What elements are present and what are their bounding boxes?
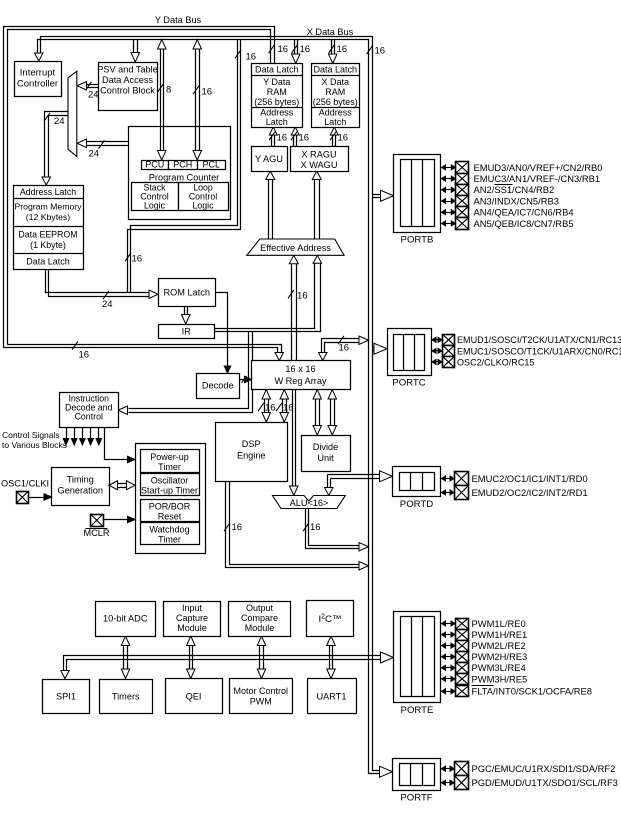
- svg-text:Decode: Decode: [202, 381, 234, 391]
- svg-text:Address: Address: [319, 108, 353, 118]
- svg-text:Address: Address: [260, 108, 294, 118]
- svg-text:16: 16: [232, 522, 243, 533]
- svg-text:PGD/EMUD/U1TX/SDO1/SCL/RF3: PGD/EMUD/U1TX/SDO1/SCL/RF3: [472, 777, 618, 788]
- svg-text:Latch: Latch: [324, 117, 346, 127]
- svg-text:24: 24: [102, 299, 113, 310]
- svg-text:PCU: PCU: [145, 160, 164, 170]
- svg-text:Control Signals: Control Signals: [2, 430, 60, 440]
- svg-text:Divide: Divide: [313, 442, 339, 452]
- svg-text:PSV and Table: PSV and Table: [97, 65, 158, 75]
- svg-text:16: 16: [310, 522, 321, 533]
- svg-text:Latch: Latch: [266, 117, 288, 127]
- svg-text:Controller: Controller: [17, 79, 58, 90]
- svg-text:EMUD3/AN0/VREF+/CN2/RB0: EMUD3/AN0/VREF+/CN2/RB0: [474, 162, 603, 173]
- svg-text:EMUC1/SOSCO/T1CK/U1ARX/CN0/RC1: EMUC1/SOSCO/T1CK/U1ARX/CN0/RC14: [457, 346, 621, 356]
- svg-text:MCLR: MCLR: [83, 528, 109, 538]
- svg-text:Timers: Timers: [112, 692, 140, 702]
- svg-text:AN2/SS1/CN4/RB2: AN2/SS1/CN4/RB2: [474, 184, 555, 195]
- svg-text:Y Data: Y Data: [263, 77, 290, 87]
- svg-text:OSC1/CLKI: OSC1/CLKI: [1, 479, 49, 489]
- svg-text:PWM3L/RE4: PWM3L/RE4: [472, 662, 526, 673]
- svg-text:16: 16: [299, 133, 310, 144]
- svg-text:X WAGU: X WAGU: [301, 160, 338, 170]
- svg-text:OSC2/CLKO/RC15: OSC2/CLKO/RC15: [457, 357, 534, 367]
- svg-text:16: 16: [300, 44, 311, 55]
- svg-text:PWM: PWM: [250, 697, 272, 707]
- svg-text:IR: IR: [182, 326, 192, 336]
- svg-text:ALU<16>: ALU<16>: [290, 498, 329, 508]
- svg-text:(12 Kbytes): (12 Kbytes): [26, 212, 71, 222]
- svg-text:Start-up Timer: Start-up Timer: [141, 486, 198, 496]
- svg-text:Logic: Logic: [144, 201, 166, 211]
- svg-text:Logic: Logic: [192, 201, 214, 211]
- svg-text:POR/BOR: POR/BOR: [149, 502, 191, 512]
- svg-text:QEI: QEI: [186, 692, 202, 702]
- svg-text:EMUD2/OC2/IC2/INT2/RD1: EMUD2/OC2/IC2/INT2/RD1: [472, 487, 588, 498]
- svg-text:PWM2L/RE2: PWM2L/RE2: [472, 640, 526, 651]
- svg-text:Control Block: Control Block: [100, 86, 155, 96]
- svg-text:Effective Address: Effective Address: [260, 243, 331, 253]
- svg-text:EMUC2/OC1/IC1/INT1/RD0: EMUC2/OC1/IC1/INT1/RD0: [472, 473, 588, 484]
- svg-text:PWM3H/RE5: PWM3H/RE5: [472, 673, 528, 684]
- svg-text:Power-up: Power-up: [150, 452, 189, 462]
- svg-text:RAM: RAM: [325, 87, 345, 97]
- svg-text:PWM2H/RE3: PWM2H/RE3: [472, 651, 528, 662]
- svg-text:Data Access: Data Access: [102, 75, 153, 85]
- svg-text:Timing: Timing: [67, 475, 94, 485]
- svg-text:Y AGU: Y AGU: [255, 154, 283, 164]
- svg-text:PCL: PCL: [202, 160, 220, 170]
- svg-text:16: 16: [246, 52, 257, 63]
- svg-text:16: 16: [297, 291, 308, 302]
- svg-text:to Various Blocks: to Various Blocks: [2, 440, 67, 450]
- svg-text:Module: Module: [245, 623, 275, 633]
- svg-text:ROM Latch: ROM Latch: [164, 287, 210, 297]
- svg-text:Motor Control: Motor Control: [233, 686, 288, 696]
- svg-text:PORTF: PORTF: [400, 793, 432, 804]
- svg-text:Output: Output: [246, 603, 274, 613]
- svg-text:Timer: Timer: [158, 462, 181, 472]
- svg-text:16: 16: [278, 44, 289, 55]
- svg-text:Unit: Unit: [317, 453, 334, 463]
- svg-text:(256 bytes): (256 bytes): [254, 97, 299, 107]
- svg-text:PORTE: PORTE: [401, 705, 434, 716]
- svg-text:PORTD: PORTD: [400, 499, 433, 510]
- svg-text:16: 16: [79, 350, 90, 361]
- svg-text:Capture: Capture: [176, 613, 208, 623]
- svg-text:16: 16: [338, 133, 349, 144]
- svg-text:PCH: PCH: [173, 160, 192, 170]
- svg-text:24: 24: [89, 149, 100, 160]
- svg-text:EMUC3/AN1/VREF-/CN3/RB1: EMUC3/AN1/VREF-/CN3/RB1: [474, 173, 601, 184]
- svg-text:Data Latch: Data Latch: [255, 65, 299, 75]
- svg-text:UART1: UART1: [317, 692, 347, 702]
- svg-text:Data Latch: Data Latch: [313, 65, 357, 75]
- svg-text:FLTA/INT0/SCK1/OCFA/RE8: FLTA/INT0/SCK1/OCFA/RE8: [472, 686, 593, 697]
- svg-text:16: 16: [337, 44, 348, 55]
- svg-text:X Data: X Data: [321, 77, 349, 87]
- svg-text:PORTC: PORTC: [392, 378, 425, 389]
- svg-text:Program Memory: Program Memory: [14, 202, 82, 212]
- svg-text:PWM1H/RE1: PWM1H/RE1: [472, 629, 528, 640]
- svg-text:10-bit ADC: 10-bit ADC: [103, 614, 148, 624]
- svg-text:Oscillator: Oscillator: [151, 476, 189, 486]
- svg-text:Interrupt: Interrupt: [20, 68, 56, 79]
- svg-text:Generation: Generation: [58, 486, 103, 496]
- svg-text:Data Latch: Data Latch: [26, 256, 70, 266]
- svg-text:(1 Kbyte): (1 Kbyte): [30, 240, 66, 250]
- svg-text:24: 24: [88, 90, 99, 101]
- svg-text:Input: Input: [182, 603, 203, 613]
- svg-text:AN3/INDX/CN5/RB3: AN3/INDX/CN5/RB3: [474, 195, 559, 206]
- svg-text:16 x 16: 16 x 16: [285, 364, 315, 374]
- svg-text:Program Counter: Program Counter: [149, 173, 219, 183]
- svg-text:AN4/QEA/IC7/CN6/RB4: AN4/QEA/IC7/CN6/RB4: [474, 207, 574, 218]
- svg-text:Module: Module: [177, 623, 207, 633]
- svg-text:SPI1: SPI1: [56, 692, 76, 702]
- svg-text:Y Data Bus: Y Data Bus: [155, 15, 202, 25]
- svg-text:Compare: Compare: [241, 613, 278, 623]
- svg-text:Address Latch: Address Latch: [20, 187, 76, 197]
- svg-text:X RAGU: X RAGU: [301, 150, 336, 160]
- svg-text:16: 16: [283, 403, 294, 414]
- svg-text:16: 16: [375, 46, 386, 57]
- svg-text:16: 16: [265, 403, 276, 414]
- svg-text:EMUD1/SOSCI/T2CK/U1ATX/CN1/RC1: EMUD1/SOSCI/T2CK/U1ATX/CN1/RC13: [457, 335, 621, 345]
- svg-text:Engine: Engine: [237, 451, 266, 461]
- svg-text:16: 16: [277, 133, 288, 144]
- svg-text:16: 16: [202, 87, 213, 98]
- svg-text:PORTB: PORTB: [401, 235, 434, 246]
- svg-text:RAM: RAM: [267, 87, 287, 97]
- svg-text:Data EEPROM: Data EEPROM: [18, 230, 77, 240]
- svg-text:PGC/EMUC/U1RX/SDI1/SDA/RF2: PGC/EMUC/U1RX/SDI1/SDA/RF2: [472, 763, 616, 774]
- svg-text:DSP: DSP: [242, 439, 261, 449]
- svg-text:Reset: Reset: [158, 512, 182, 522]
- svg-text:Timer: Timer: [158, 535, 181, 545]
- svg-text:(256 bytes): (256 bytes): [313, 97, 358, 107]
- svg-text:Control: Control: [75, 412, 103, 422]
- svg-text:W Reg Array: W Reg Array: [274, 376, 326, 386]
- svg-text:Watchdog: Watchdog: [149, 525, 189, 535]
- svg-text:24: 24: [54, 116, 65, 127]
- svg-text:AN5/QEB/IC8/CN7/RB5: AN5/QEB/IC8/CN7/RB5: [474, 218, 574, 229]
- svg-text:16: 16: [339, 343, 350, 354]
- svg-text:8: 8: [166, 85, 171, 96]
- svg-text:X Data Bus: X Data Bus: [307, 27, 354, 37]
- svg-text:PWM1L/RE0: PWM1L/RE0: [472, 618, 526, 629]
- svg-text:16: 16: [132, 254, 143, 265]
